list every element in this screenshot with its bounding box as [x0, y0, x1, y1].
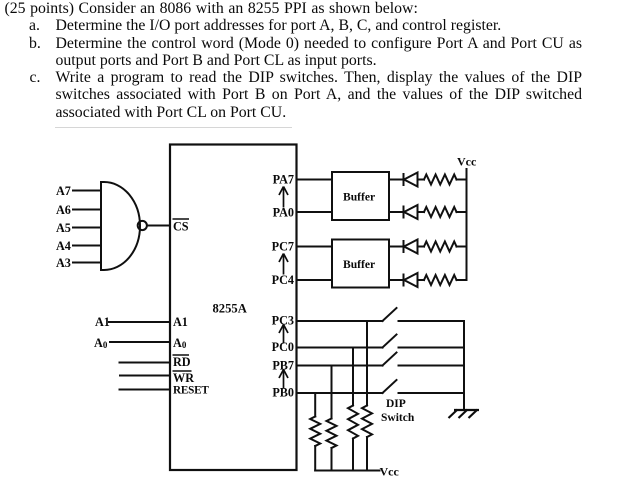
RD overline — [173, 354, 190, 356]
LED D2 — [404, 205, 418, 219]
svg-text:PA0: PA0 — [273, 206, 294, 220]
svg-text:Vcc: Vcc — [380, 465, 400, 479]
wire CS from gate to IC — [147, 225, 170, 227]
arrow PC7-PC4 — [279, 254, 288, 275]
wire R8 (PC3 pull-up) to Vcc rail — [366, 437, 368, 471]
resistor R4 — [424, 275, 457, 285]
wire A6 input — [73, 209, 101, 211]
svg-text:A1: A1 — [95, 315, 110, 329]
switch SW1 blade — [383, 308, 397, 321]
svg-text:PC7: PC7 — [272, 240, 294, 254]
faint scan underline artifact — [55, 127, 292, 128]
wire PA0 to buffer U2 — [297, 211, 333, 213]
wire A7 input — [73, 190, 101, 192]
resistor R6 (PB7 pull-up) — [327, 419, 337, 449]
wire stub to R7 (PC0 pull-up) — [352, 348, 354, 406]
wire LED to resistor R2 — [418, 211, 425, 213]
arrow PB7-PB0 — [279, 370, 288, 389]
svg-text:Vcc: Vcc — [457, 155, 477, 169]
wire LED to resistor R3 — [418, 246, 425, 248]
NAND gate U1 body — [101, 182, 140, 270]
wire A1 — [109, 321, 170, 323]
wire PB0 row — [297, 392, 383, 394]
svg-text:A5: A5 — [56, 221, 71, 235]
WR overline — [173, 370, 192, 372]
wire PC3 row — [297, 320, 383, 322]
wire buffer out PC4 — [389, 279, 404, 281]
Vcc rail bottom — [315, 470, 379, 472]
wire resistor R4 to Vcc bus — [457, 279, 467, 281]
wire A0 — [110, 341, 170, 343]
wire RD — [120, 362, 171, 364]
wire buffer out PA7 — [389, 179, 404, 181]
wire PC3 to ground bus — [399, 320, 465, 322]
wire R6 (PB7 pull-up) to Vcc rail — [331, 448, 333, 471]
wire A5 input — [73, 227, 101, 229]
wire RESET — [120, 389, 171, 391]
svg-text:A1: A1 — [173, 315, 188, 329]
wire stub to R6 (PB7 pull-up) — [331, 366, 333, 419]
wire PB7 row — [297, 365, 383, 367]
resistor R1 — [424, 175, 457, 185]
switch SW4 blade — [383, 380, 397, 393]
CS overline — [173, 218, 190, 220]
wire buffer out PC7 — [389, 246, 404, 248]
wire PC0 row — [297, 347, 383, 349]
Vcc bus (top right) — [466, 169, 468, 280]
svg-text:RESET: RESET — [173, 385, 209, 397]
wire A4 input — [73, 245, 101, 247]
svg-text:Buffer: Buffer — [343, 258, 375, 271]
arrow PC3-PC0 — [279, 325, 288, 344]
wire stub to R5 (PB0 pull-up) — [314, 393, 316, 417]
wire A3 input — [73, 262, 101, 264]
switch SW2 blade — [383, 335, 397, 348]
svg-text:Buffer: Buffer — [343, 191, 375, 204]
wire LED to resistor R4 — [418, 279, 425, 281]
buffer U3 box — [332, 240, 389, 288]
resistor R3 — [424, 242, 457, 252]
buffer U2 box — [332, 172, 389, 220]
wire WR — [120, 375, 170, 377]
svg-text:A0: A0 — [94, 336, 108, 350]
LED + resistor rows (top right) — [389, 173, 467, 288]
IC 8255A body — [170, 145, 297, 471]
problem statement text — [5, 0, 418, 17]
svg-text:WR: WR — [173, 371, 194, 385]
bottom right DIP switch rows — [297, 308, 465, 471]
LED D4 — [404, 273, 418, 287]
svg-text:Switch: Switch — [381, 412, 415, 424]
wire R5 (PB0 pull-up) to Vcc rail — [314, 446, 316, 471]
svg-text:PA7: PA7 — [273, 173, 294, 187]
NAND gate U1 output bubble — [138, 221, 147, 230]
LED D1 — [404, 173, 418, 187]
LED D3 — [404, 240, 418, 254]
wire PC7 to buffer U3 — [297, 246, 333, 248]
svg-text:A0: A0 — [173, 336, 187, 350]
switch SW3 blade — [383, 353, 397, 366]
svg-text:A3: A3 — [56, 256, 71, 270]
svg-text:DIP: DIP — [386, 398, 406, 410]
wire resistor R2 to Vcc bus — [457, 211, 467, 213]
wire PC4 to buffer U3 — [297, 279, 333, 281]
wire PC0 to ground bus — [399, 347, 465, 349]
svg-text:CS: CS — [173, 220, 189, 234]
svg-text:RD: RD — [173, 355, 191, 369]
svg-text:A6: A6 — [56, 203, 71, 217]
ground bus vertical — [463, 321, 465, 410]
wire resistor R3 to Vcc bus — [457, 246, 467, 248]
wire stub to R8 (PC3 pull-up) — [366, 321, 368, 406]
arrow PA7-PA0 — [279, 187, 288, 208]
svg-text:A4: A4 — [56, 239, 71, 253]
svg-text:8255A: 8255A — [213, 302, 247, 316]
wire resistor R1 to Vcc bus — [457, 179, 467, 181]
wire PB7 to ground bus — [399, 365, 465, 367]
wire PA7 to buffer U2 — [297, 179, 333, 181]
wire LED to resistor R1 — [418, 179, 425, 181]
resistor R8 (PC3 pull-up) — [362, 406, 372, 438]
svg-text:A7: A7 — [56, 184, 71, 198]
resistor R2 — [424, 207, 457, 217]
wire PB0 to ground bus — [399, 392, 465, 394]
ground symbol — [449, 410, 480, 419]
resistor R7 (PC0 pull-up) — [348, 406, 358, 439]
resistor R5 (PB0 pull-up) — [310, 417, 320, 447]
wire R7 (PC0 pull-up) to Vcc rail — [352, 439, 354, 471]
wire buffer out PA0 — [389, 211, 404, 213]
svg-text:PC4: PC4 — [272, 273, 294, 287]
port group arrows — [279, 187, 288, 389]
